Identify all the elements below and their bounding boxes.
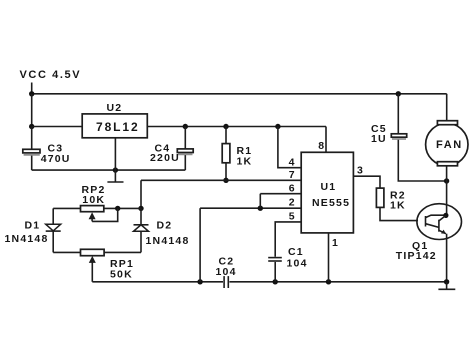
resistor R2 body bbox=[376, 188, 384, 207]
wire D1 top lead bbox=[52, 208, 54, 224]
wire 12V output rail bbox=[147, 126, 326, 128]
wire pin8 drop bbox=[325, 127, 327, 153]
ground symbol bottom right bbox=[438, 288, 455, 290]
wire C5 top lead bbox=[397, 94, 399, 134]
wire D2 bottom lead bbox=[140, 231, 142, 252]
svg-text:6: 6 bbox=[289, 182, 295, 194]
capacitor C1 plates bbox=[268, 258, 282, 261]
wire RP1 left lead bbox=[53, 251, 80, 253]
junction RP2 right / D2 node bbox=[138, 206, 143, 211]
wire D2 top lead bbox=[140, 208, 142, 224]
svg-text:D1: D1 bbox=[25, 220, 41, 232]
wire C4 top lead bbox=[184, 127, 186, 150]
wire RP2 right lead bbox=[104, 207, 141, 209]
junction pin6 tie bbox=[258, 206, 263, 211]
svg-text:D2: D2 bbox=[157, 219, 173, 231]
svg-text:104: 104 bbox=[216, 266, 237, 278]
wire R1 bottom lead bbox=[225, 163, 227, 181]
svg-text:1K: 1K bbox=[390, 199, 406, 211]
wire VCC terminal stub bbox=[31, 83, 33, 94]
diode D2 bbox=[134, 225, 149, 232]
svg-text:220U: 220U bbox=[150, 152, 180, 164]
wire R1 top lead bbox=[225, 127, 227, 144]
svg-text:2: 2 bbox=[289, 197, 295, 209]
junction C4 tap bbox=[183, 124, 188, 129]
svg-text:U1: U1 bbox=[321, 181, 337, 193]
svg-text:7: 7 bbox=[289, 169, 295, 181]
RP2 wiper arrow bbox=[89, 212, 96, 221]
wire pin3 lead to R2 bbox=[353, 176, 380, 188]
svg-text:8: 8 bbox=[318, 140, 324, 152]
svg-text:470U: 470U bbox=[41, 153, 71, 165]
svg-text:4: 4 bbox=[289, 156, 295, 168]
junction pins2/6 drop on bottom rail bbox=[197, 279, 202, 284]
svg-text:1K: 1K bbox=[237, 155, 253, 167]
regulator U2 78L12 box bbox=[82, 114, 147, 138]
junction pin4 tap bbox=[275, 124, 280, 129]
junction R1 to pin7 rail bbox=[223, 178, 228, 183]
wire D1 bottom lead bbox=[52, 231, 54, 252]
svg-text:3: 3 bbox=[357, 165, 363, 177]
svg-text:NE555: NE555 bbox=[312, 197, 350, 209]
wire fan bottom to Q1 collector bbox=[446, 166, 448, 216]
junction RP2 wiper tie bbox=[115, 206, 120, 211]
wire RP2 left lead bbox=[53, 207, 80, 209]
IC U1 NE555 box bbox=[301, 152, 353, 233]
svg-text:1N4148: 1N4148 bbox=[5, 233, 49, 245]
wire ground stub under Q1 bbox=[446, 282, 448, 290]
wire R2 bottom to Q1 base bbox=[380, 207, 418, 220]
capacitor C2 series plates bbox=[224, 276, 228, 288]
wire pin5 lead and drop bbox=[275, 222, 301, 257]
junction pin1 bottom bbox=[326, 279, 331, 284]
svg-text:78L12: 78L12 bbox=[96, 120, 140, 134]
wire pin4 drop bbox=[278, 127, 301, 168]
wire VCC drop to regulator input bbox=[31, 94, 33, 127]
junction regulator input node bbox=[29, 124, 34, 129]
junction C5 tap on VCC rail bbox=[396, 91, 401, 96]
svg-text:TIP142: TIP142 bbox=[396, 250, 437, 262]
first collector stroke bbox=[426, 215, 446, 217]
svg-text:50K: 50K bbox=[110, 268, 133, 280]
junction C1 bottom bbox=[273, 279, 278, 284]
wire bottom rail right segment (C2 to Q1 emitter/ground) bbox=[229, 281, 446, 283]
svg-text:1N4148: 1N4148 bbox=[146, 235, 190, 247]
resistor R1 body bbox=[222, 144, 230, 163]
base bar first stage bbox=[425, 216, 427, 227]
wire C3 top lead bbox=[31, 127, 33, 150]
wire bottom rail left segment (RP1 wiper to C2) bbox=[92, 281, 223, 283]
junction VCC left bbox=[29, 91, 34, 96]
capacitor C3 plates bbox=[23, 149, 40, 155]
motor FAN bbox=[426, 121, 468, 166]
svg-text:VCC 4.5V: VCC 4.5V bbox=[20, 69, 82, 81]
wire pin1 drop bbox=[328, 233, 330, 282]
junction emitter to bottom rail bbox=[444, 279, 449, 284]
diode D1 bbox=[46, 224, 61, 231]
wire C1 bottom lead bbox=[274, 262, 276, 282]
svg-text:FAN: FAN bbox=[436, 139, 463, 151]
second emitter stroke with arrow bbox=[439, 230, 446, 233]
wire fan top lead bbox=[446, 94, 448, 121]
junction R1 tap bbox=[223, 124, 228, 129]
wire VCC top rail bbox=[32, 93, 447, 95]
wire pin2 drop bbox=[199, 208, 201, 282]
svg-text:U2: U2 bbox=[107, 102, 123, 114]
wire C4 bottom lead bbox=[184, 155, 186, 170]
junction C5 to fan-collector wire bbox=[444, 178, 449, 183]
capacitor C4 plates bbox=[177, 149, 193, 155]
wire RP1 right lead bbox=[104, 251, 141, 253]
svg-text:1: 1 bbox=[332, 237, 338, 249]
wire RP2 wiper link bbox=[92, 208, 118, 221]
transistor Q1 TIP142 darlington bbox=[417, 204, 462, 240]
capacitor C5 plates bbox=[391, 134, 406, 139]
wire pin6 lead bbox=[260, 193, 301, 195]
svg-text:C1: C1 bbox=[288, 246, 304, 258]
wire Q1 emitter drop bbox=[446, 234, 448, 282]
wire pin2 rail bbox=[200, 207, 301, 209]
second collector stroke bbox=[439, 215, 446, 221]
wire pin6 drop bbox=[259, 194, 261, 209]
wire pin7 drop to RP2/D2 node bbox=[140, 180, 142, 208]
first emitter stroke bbox=[426, 224, 439, 228]
wire input rail to U2 bbox=[32, 126, 82, 128]
svg-text:10K: 10K bbox=[82, 194, 105, 206]
svg-text:1U: 1U bbox=[371, 133, 387, 145]
ground symbol under U2 bbox=[107, 181, 123, 183]
wire C3 bottom lead bbox=[31, 156, 33, 171]
svg-text:104: 104 bbox=[287, 258, 308, 270]
wire C5 bottom lead to collector node bbox=[398, 140, 446, 181]
wire analog ground rail C3-U2-C4 bbox=[32, 169, 186, 171]
potentiometer RP1 body bbox=[81, 249, 105, 255]
junction internal collector bbox=[443, 213, 448, 218]
base bar second stage bbox=[438, 220, 440, 232]
RP1 wiper arrow bbox=[89, 256, 96, 282]
svg-text:5: 5 bbox=[289, 211, 295, 223]
junction U2 ground crossing bbox=[113, 167, 118, 172]
wire U2 ground pin bbox=[114, 138, 116, 182]
wire pin7 rail bbox=[141, 179, 301, 181]
potentiometer RP2 body bbox=[81, 206, 104, 212]
